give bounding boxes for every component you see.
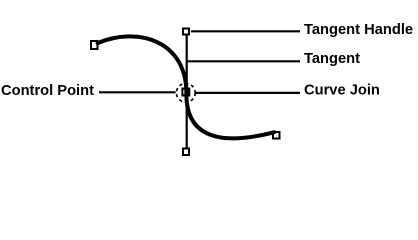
svg-text:Control Point: Control Point	[1, 83, 94, 99]
control-point square at curve join	[182, 89, 189, 96]
S-shaped bezier curve	[98, 36, 274, 138]
bottom tangent-handle square	[183, 149, 189, 156]
leader line to Tangent Handle label	[191, 30, 300, 32]
curve start-point square	[91, 41, 98, 49]
leader line from Control Point label	[99, 91, 176, 93]
svg-text:Tangent: Tangent	[304, 51, 360, 67]
curve end-point square	[273, 132, 280, 139]
vertical tangent line	[186, 34, 188, 149]
leader line to Curve Join label	[196, 92, 300, 94]
svg-text:Curve Join: Curve Join	[304, 83, 380, 99]
dashed circle marking curve join	[176, 83, 195, 102]
leader line to Tangent label	[188, 60, 301, 62]
svg-text:Tangent Handle: Tangent Handle	[304, 22, 413, 38]
top tangent-handle square	[183, 29, 189, 35]
